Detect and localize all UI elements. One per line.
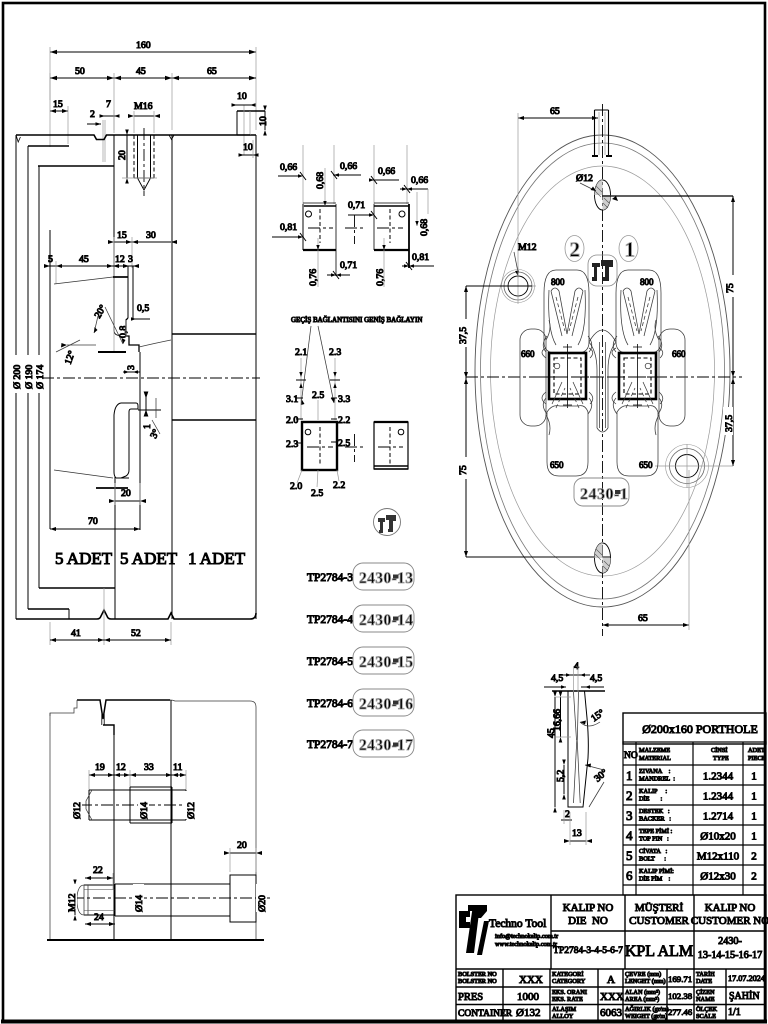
row 2	[626, 788, 757, 803]
svg-text:2430-15: 2430-15	[359, 654, 413, 671]
dim 0,68 #1	[315, 168, 327, 206]
mandrel cone upper	[54, 277, 113, 284]
die square left	[539, 344, 596, 408]
stamp T logo center	[588, 255, 617, 286]
top face line with dip	[16, 135, 256, 140]
porthole lower pocket right	[617, 382, 658, 476]
weld chamber ceiling	[139, 340, 171, 347]
svg-text:Ø200x160 PORTHOLE: Ø200x160 PORTHOLE	[642, 722, 758, 736]
svg-text:65: 65	[207, 66, 217, 77]
svg-text:Ø20: Ø20	[257, 895, 268, 912]
svg-text:1: 1	[751, 771, 757, 783]
svg-text:37,5: 37,5	[458, 327, 469, 344]
svg-text:CİNSİ: CİNSİ	[711, 747, 727, 754]
label M12	[66, 880, 78, 921]
mandrel bottom step	[39, 587, 115, 589]
dimension 5 45 12 3	[44, 254, 139, 284]
backer bore lines	[172, 333, 256, 335]
svg-text:12: 12	[116, 762, 126, 773]
svg-text:13: 13	[572, 828, 582, 839]
svg-text:GEÇİŞ BAĞLANTISINI GENİŞ BAĞLA: GEÇİŞ BAĞLANTISINI GENİŞ BAĞLAYIN	[291, 316, 422, 324]
svg-text:2430-16: 2430-16	[359, 696, 413, 713]
svg-text:15°: 15°	[589, 707, 607, 724]
dimension 0,8	[118, 320, 129, 338]
bolt	[77, 875, 256, 922]
svg-text:5,2: 5,2	[556, 770, 567, 782]
svg-text:45: 45	[136, 66, 146, 77]
dim 0,71 #2 top	[348, 200, 377, 219]
svg-text:65: 65	[550, 106, 560, 117]
svg-text:20: 20	[237, 840, 247, 851]
label D190	[23, 355, 35, 393]
svg-text:160: 160	[136, 40, 151, 51]
svg-text:6: 6	[626, 868, 633, 883]
svg-text:Ø12x30: Ø12x30	[700, 871, 736, 883]
lower cone line	[54, 470, 113, 478]
svg-text:11: 11	[173, 762, 183, 773]
svg-text:1: 1	[625, 238, 636, 262]
dimension 1 and 3deg	[138, 392, 162, 441]
svg-text:BACKER :: BACKER :	[639, 816, 671, 823]
svg-text:ALLOY: ALLOY	[552, 1013, 574, 1020]
svg-text:12°: 12°	[63, 349, 78, 366]
svg-text:WEIGHT (gr/m): WEIGHT (gr/m)	[625, 1013, 667, 1020]
label D20	[256, 884, 268, 912]
svg-text:Techno Tool: Techno Tool	[489, 918, 546, 930]
detail A circle	[306, 211, 312, 217]
svg-text:ZIVANA :: ZIVANA :	[639, 768, 671, 775]
svg-text:BOLSTER NO: BOLSTER NO	[458, 971, 497, 978]
svg-text:DATE: DATE	[696, 978, 712, 985]
svg-text:MÜŞTERİ: MÜŞTERİ	[635, 902, 684, 914]
svg-text:TP2784-7: TP2784-7	[307, 739, 353, 751]
flange stub lines left	[28, 145, 69, 147]
svg-text:1: 1	[751, 831, 757, 843]
label D200	[11, 355, 23, 393]
dim 3.3	[331, 394, 350, 405]
svg-text:TEPE PİMİ :: TEPE PİMİ :	[639, 828, 672, 835]
svg-text:ALAN (mm²): ALAN (mm²)	[625, 989, 660, 996]
svg-text:20°: 20°	[93, 303, 109, 320]
svg-text:52: 52	[131, 628, 141, 639]
top pin hole D12	[576, 173, 611, 210]
svg-text:TYPE: TYPE	[713, 755, 729, 762]
dimension 7	[100, 99, 120, 133]
svg-text:M12x110: M12x110	[697, 851, 740, 863]
svg-text:1.2714: 1.2714	[703, 811, 734, 823]
side pocket 660 left	[520, 320, 550, 435]
mandrel pocket left wall	[49, 230, 51, 529]
svg-text:1.2344: 1.2344	[703, 791, 734, 803]
svg-text:0,81: 0,81	[280, 222, 297, 233]
svg-text:10: 10	[258, 116, 269, 126]
svg-text:SCALE: SCALE	[696, 1013, 716, 1020]
die left wall	[113, 135, 115, 331]
top pin shaft	[86, 787, 186, 823]
dim 3.1	[286, 394, 303, 405]
svg-text:6063: 6063	[600, 1007, 623, 1019]
svg-text:4: 4	[626, 828, 633, 843]
svg-text:PIECE: PIECE	[748, 755, 766, 762]
dimension 10 tab	[232, 91, 256, 107]
dim 0,68 #2	[415, 192, 430, 236]
top line	[552, 690, 605, 692]
dimension 10 vertical right	[258, 106, 269, 136]
svg-text:TP2784-5: TP2784-5	[307, 656, 353, 668]
svg-text:Ø 190: Ø 190	[24, 365, 35, 389]
dim 30deg	[585, 764, 610, 808]
svg-text:BOLT :: BOLT :	[639, 856, 666, 863]
svg-text:Ø12: Ø12	[576, 173, 593, 184]
dim 4,5 right	[581, 673, 604, 689]
die face thick	[98, 351, 126, 353]
dim 2.1	[295, 347, 307, 420]
stamp 2430-15	[353, 647, 414, 674]
dimension 20 hole depth	[117, 130, 157, 184]
svg-text:5: 5	[626, 848, 633, 863]
svg-text:ÇİZEN: ÇİZEN	[696, 989, 715, 996]
dimension 41 52	[50, 588, 171, 645]
svg-text:75: 75	[725, 283, 736, 293]
svg-text:4,5: 4,5	[590, 673, 602, 684]
svg-text:2.2: 2.2	[338, 415, 350, 426]
svg-text:0,68: 0,68	[419, 219, 430, 236]
value customer no	[698, 936, 763, 961]
outer ellipse	[475, 135, 730, 607]
svg-text:TP2784-3: TP2784-3	[307, 572, 353, 584]
svg-text:15: 15	[117, 230, 127, 241]
dim 0,81 #1	[272, 222, 306, 241]
svg-text:7: 7	[106, 99, 111, 110]
svg-text:70: 70	[88, 516, 98, 527]
svg-text:2.3: 2.3	[329, 347, 341, 358]
keyway tab	[592, 110, 612, 156]
part list rows	[307, 572, 353, 751]
porthole upper pocket left	[544, 270, 589, 353]
svg-text:0,66: 0,66	[280, 162, 297, 173]
bearing step	[126, 318, 139, 352]
dim 0,66 #1	[278, 162, 306, 180]
svg-text:2: 2	[90, 109, 95, 120]
svg-text:19: 19	[95, 762, 105, 773]
header texts	[624, 747, 766, 762]
right edge	[255, 135, 257, 619]
dimension M16	[128, 101, 160, 133]
svg-text:0,68: 0,68	[315, 172, 326, 189]
svg-text:2430-1: 2430-1	[580, 486, 628, 503]
svg-text:NO: NO	[624, 751, 638, 761]
Techno Tool logo	[459, 905, 559, 955]
page border bottom thick	[1, 1020, 767, 1024]
dim 0,76 #1	[308, 238, 320, 287]
svg-text:169.71: 169.71	[668, 974, 692, 984]
svg-text:102.38: 102.38	[668, 991, 693, 1001]
middle crosshair	[345, 215, 364, 244]
svg-text:5 ADET: 5 ADET	[55, 549, 113, 568]
dimension 15 30 die	[108, 230, 177, 352]
svg-text:2.5: 2.5	[311, 488, 323, 499]
svg-text:Ø 200: Ø 200	[12, 365, 23, 389]
stamp number 2	[565, 236, 584, 262]
svg-text:0,5: 0,5	[137, 303, 149, 314]
svg-text:2: 2	[570, 238, 581, 262]
svg-text:45: 45	[546, 728, 557, 738]
svg-text:DİE PİM :: DİE PİM :	[639, 876, 671, 883]
svg-text:3: 3	[126, 365, 137, 370]
svg-text:ALAŞIM: ALAŞIM	[552, 1006, 577, 1013]
svg-text:800: 800	[640, 277, 654, 287]
svg-text:0,66: 0,66	[340, 161, 357, 172]
svg-text:33: 33	[144, 762, 154, 773]
svg-text:15: 15	[53, 99, 63, 110]
svg-text:17.07.2024: 17.07.2024	[728, 974, 765, 983]
svg-text:10: 10	[237, 91, 247, 102]
dim 19 12 33 11	[89, 762, 186, 793]
svg-text:PRES: PRES	[458, 992, 483, 1003]
svg-text:www.technokalip.com.tr: www.technokalip.com.tr	[495, 941, 558, 948]
table header box	[623, 713, 766, 744]
svg-text:0,81: 0,81	[412, 252, 429, 263]
bearing lines	[127, 266, 129, 318]
svg-text:CUSTOMER: CUSTOMER	[629, 915, 689, 927]
svg-text:ADET: ADET	[748, 747, 765, 754]
dim 4	[563, 661, 590, 677]
svg-text:1: 1	[751, 791, 757, 803]
svg-text:30: 30	[146, 230, 156, 241]
outline sides/bottom	[49, 713, 51, 940]
pin centerline	[80, 804, 196, 806]
dim 0,71 #1 bottom	[327, 260, 357, 279]
svg-text:75: 75	[458, 465, 469, 475]
svg-text:65: 65	[638, 613, 648, 624]
svg-text:20: 20	[117, 150, 128, 160]
dim 37,5 right	[723, 378, 735, 466]
bottom line	[16, 610, 256, 619]
svg-text:Ø 174: Ø 174	[35, 365, 46, 389]
svg-text:M12: M12	[518, 242, 537, 253]
detail B circle	[399, 211, 405, 217]
dim 75 left	[457, 378, 610, 557]
svg-text:2430-13: 2430-13	[359, 570, 413, 587]
svg-text:LENGHT (mm): LENGHT (mm)	[625, 978, 666, 985]
dim 37,5 left	[457, 286, 532, 557]
svg-text:M12: M12	[67, 893, 78, 912]
svg-text:2: 2	[565, 809, 570, 820]
row 1	[626, 768, 757, 783]
svg-text:DİE :: DİE :	[639, 796, 663, 803]
dim 24	[85, 912, 115, 926]
OD profile verticals	[15, 135, 17, 619]
dim 0,76 #2	[375, 238, 386, 287]
svg-text:4,5: 4,5	[551, 673, 563, 684]
svg-text:3.3: 3.3	[338, 394, 350, 405]
svg-text:0,8: 0,8	[118, 326, 129, 338]
svg-text:Ø14: Ø14	[139, 802, 150, 819]
svg-text:2: 2	[751, 851, 757, 863]
svg-text:13-14-15-16-17: 13-14-15-16-17	[698, 950, 763, 961]
svg-text:ÖLÇEK: ÖLÇEK	[696, 1006, 717, 1013]
svg-text:AREA (mm²): AREA (mm²)	[625, 996, 659, 1003]
label D14 bolt	[133, 884, 145, 912]
svg-text:ÇEVRE (mm): ÇEVRE (mm)	[625, 971, 661, 978]
svg-text:1: 1	[626, 768, 633, 783]
svg-text:2430-: 2430-	[718, 936, 742, 947]
dimension 70	[50, 516, 140, 531]
svg-text:2.3: 2.3	[286, 439, 298, 450]
detail B centerlines	[377, 209, 403, 243]
svg-text:1: 1	[751, 811, 757, 823]
svg-text:20: 20	[121, 488, 131, 499]
svg-text:KALIP NO: KALIP NO	[705, 902, 756, 914]
horizontal centerline	[466, 376, 742, 378]
detail C lower dims	[290, 470, 345, 499]
dim 75 right	[603, 196, 737, 466]
lower pocket face lines	[96, 487, 128, 489]
svg-text:TP2784-3-4-5-6-7: TP2784-3-4-5-6-7	[553, 946, 623, 956]
svg-text:0,71: 0,71	[348, 200, 365, 211]
svg-text:5 ADET: 5 ADET	[120, 549, 178, 568]
svg-text:KALIP PİMİ:: KALIP PİMİ:	[639, 868, 674, 875]
die exit wall below center	[139, 352, 141, 530]
svg-text:DIE NO: DIE NO	[568, 915, 608, 927]
lower pocket J shape	[114, 403, 138, 478]
profile body	[568, 666, 588, 807]
leader lines	[301, 326, 334, 405]
svg-text:660: 660	[672, 349, 686, 359]
svg-text:CİVATA :: CİVATA :	[639, 848, 667, 855]
svg-text:1 ADET: 1 ADET	[188, 549, 246, 568]
svg-text:TP2784-6: TP2784-6	[307, 698, 353, 710]
svg-text:2430-14: 2430-14	[359, 612, 413, 629]
svg-text:50: 50	[75, 66, 85, 77]
svg-text:Ø12: Ø12	[72, 802, 83, 819]
header MUSTERI CUSTOMER	[629, 902, 689, 927]
row 4	[626, 828, 757, 843]
middle crosshair lower	[345, 434, 364, 462]
svg-text:CONTAINER: CONTAINER	[458, 1009, 513, 1019]
dim 2.3 left2	[286, 439, 303, 450]
row container	[458, 1005, 741, 1020]
row pres	[458, 989, 760, 1003]
svg-text:ŞAHİN: ŞAHİN	[729, 990, 760, 1002]
svg-text:30°: 30°	[592, 767, 610, 784]
svg-text:Ø14: Ø14	[134, 895, 145, 912]
die/backer boundary	[171, 135, 173, 619]
dimension 10 below tab	[239, 140, 259, 158]
svg-text:KALIP NO: KALIP NO	[563, 902, 614, 914]
svg-text:12: 12	[115, 254, 125, 265]
header KALIP NO DIE NO	[563, 902, 614, 927]
label D12 b	[185, 791, 197, 819]
stamp T logo circle	[374, 509, 401, 536]
detail C square	[302, 422, 337, 470]
label D174	[34, 355, 46, 393]
M16 tapped hole	[134, 128, 154, 196]
svg-text:info@technokalip.com.tr: info@technokalip.com.tr	[495, 933, 559, 940]
porthole lower pocket left	[547, 382, 588, 476]
svg-text:1/1: 1/1	[728, 1007, 741, 1018]
svg-text:Ø10x20: Ø10x20	[700, 831, 736, 843]
dim 16,66	[552, 692, 571, 743]
angle 12	[56, 340, 96, 366]
row bolster	[458, 971, 765, 986]
M12 hole top-left	[500, 242, 537, 304]
web curves right set	[612, 336, 663, 414]
dimension 3 small	[123, 365, 140, 374]
dim 5,2	[556, 760, 567, 800]
dim 0,66 #3	[369, 166, 399, 184]
svg-text:2.0: 2.0	[290, 481, 302, 492]
svg-text:2.1: 2.1	[295, 347, 307, 358]
svg-text:Ø12: Ø12	[186, 802, 197, 819]
stamp 2430-14	[353, 605, 414, 632]
dimension 15 top-left	[50, 73, 68, 147]
stamp 2430-1	[574, 478, 629, 506]
svg-text:22: 22	[93, 865, 103, 876]
svg-text:277.46: 277.46	[668, 1007, 693, 1017]
header KALIP NO CUSTOMER NO	[691, 902, 768, 927]
dim 2.3	[329, 347, 341, 420]
stamp 2430-17	[353, 730, 414, 757]
stamp 2430-13	[353, 563, 414, 590]
dim 0,66 #4	[400, 175, 428, 214]
svg-text:800: 800	[551, 277, 565, 287]
svg-text:0,66: 0,66	[378, 166, 395, 177]
svg-text:24: 24	[94, 912, 104, 923]
svg-text:Ø132: Ø132	[516, 1007, 540, 1019]
svg-text:41: 41	[71, 628, 81, 639]
central arch	[589, 330, 616, 432]
dim 65 top	[518, 106, 598, 278]
dim 2.0 left	[286, 415, 303, 426]
dim 15deg	[580, 707, 607, 726]
dim 2.2 right	[331, 415, 350, 426]
second ellipse	[481, 143, 725, 599]
vertical centerline	[602, 104, 604, 636]
svg-text:KATEGORİ: KATEGORİ	[552, 971, 583, 978]
svg-text:EKS. ORANI: EKS. ORANI	[552, 989, 587, 996]
label D14	[138, 791, 150, 819]
svg-text:MATERIAL: MATERIAL	[639, 755, 671, 762]
svg-text:0,76: 0,76	[308, 269, 319, 286]
table grid	[623, 742, 766, 895]
svg-text:0,71: 0,71	[340, 260, 357, 271]
porthole upper pocket right	[616, 270, 661, 353]
svg-text:DESTEK :: DESTEK :	[639, 808, 670, 815]
svg-text:KALIP :: KALIP :	[639, 788, 667, 795]
svg-text:660: 660	[521, 349, 535, 359]
bottom line	[47, 939, 264, 941]
stamp number 1	[619, 236, 638, 262]
svg-text:37,5: 37,5	[724, 415, 735, 432]
svg-text:2: 2	[751, 871, 757, 883]
row 3	[626, 808, 757, 823]
dimension 0,5	[131, 303, 150, 321]
svg-text:TP2784-4: TP2784-4	[307, 614, 353, 626]
svg-text:2430-17: 2430-17	[359, 737, 413, 754]
dimension 160	[50, 40, 256, 130]
svg-text:XXX: XXX	[519, 974, 543, 986]
row 6	[626, 868, 757, 883]
key tab top-right	[237, 105, 265, 155]
svg-text:1000: 1000	[517, 991, 540, 1003]
dimension 2	[87, 109, 105, 162]
svg-text:2.2: 2.2	[333, 480, 345, 491]
dim 13	[564, 812, 592, 845]
stamp 2430-16	[353, 689, 414, 716]
bolt centerline	[72, 897, 270, 899]
svg-text:TOP PIN :: TOP PIN :	[639, 836, 669, 843]
